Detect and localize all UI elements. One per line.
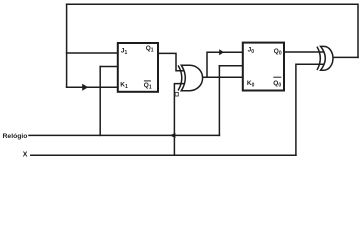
wire X rail: [31, 154, 296, 156]
wire J1 input: [67, 52, 118, 54]
flip-flop FF2 box: [243, 43, 284, 91]
wire right gate output to right rail: [332, 56, 358, 58]
wire FF1 clock vertical from Relogio rail: [99, 67, 101, 136]
wire left feedback rail: [66, 4, 68, 87]
xor gate U2 (right): [317, 46, 333, 70]
wire XOR output to K0: [202, 76, 243, 78]
arrow on Relogio wire: [170, 133, 176, 138]
wire XOR output branch to J0: [207, 52, 243, 77]
wire Q0 to right gate top input: [284, 51, 323, 53]
wire FF1 clock jog: [100, 66, 118, 68]
svg-text:X: X: [23, 151, 28, 158]
wire top feedback rail: [67, 4, 358, 57]
wire FF2 clock jog: [219, 65, 242, 67]
wire Q1 to XOR top input: [158, 53, 186, 70]
wire X to right gate bottom input: [296, 64, 323, 155]
wire Relogio rail: [29, 134, 219, 136]
wire FF2 clock vertical: [218, 66, 220, 136]
wire K1 input: [67, 86, 118, 88]
arrow on K1 wire: [82, 84, 88, 91]
label o under xor U1: [175, 92, 178, 96]
svg-text:Relógio: Relógio: [3, 133, 28, 140]
arrow on J0 wire: [219, 49, 224, 55]
flip-flop FF1 box: [118, 43, 158, 92]
xor gate U1 (middle): [178, 65, 202, 91]
wire X to XOR bottom input: [174, 84, 186, 156]
